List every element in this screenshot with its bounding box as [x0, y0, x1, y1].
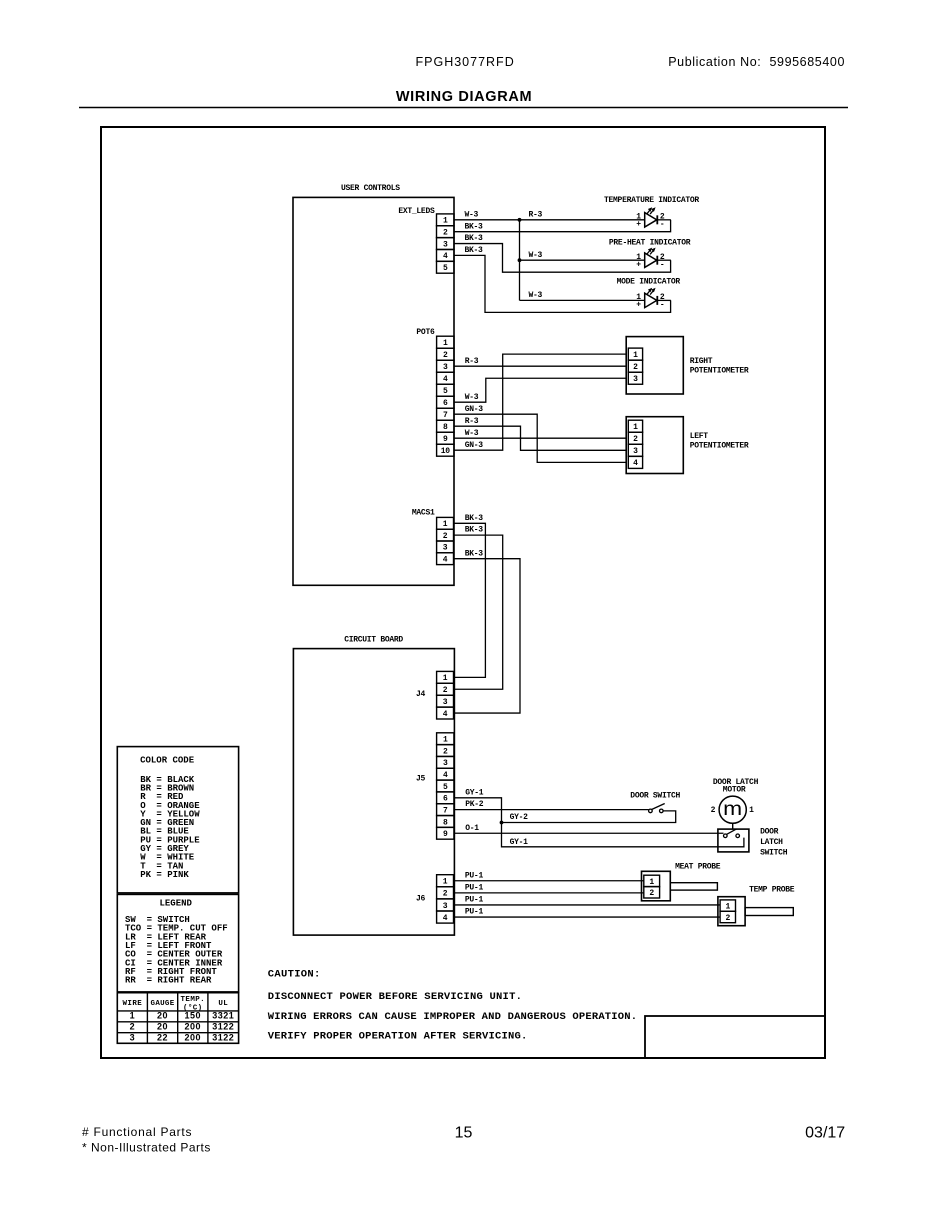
svg-text:-: - — [660, 301, 665, 310]
svg-text:MEAT PROBE: MEAT PROBE — [675, 863, 721, 872]
svg-text:1: 1 — [633, 423, 638, 432]
svg-text:PRE-HEAT INDICATOR: PRE-HEAT INDICATOR — [609, 239, 691, 248]
svg-text:22: 22 — [157, 1032, 168, 1042]
svg-text:2: 2 — [649, 889, 654, 898]
svg-text:MOTOR: MOTOR — [723, 786, 746, 795]
svg-text:BK-3: BK-3 — [465, 222, 484, 231]
svg-text:9: 9 — [443, 830, 448, 839]
svg-text:3: 3 — [443, 759, 448, 768]
svg-text:1: 1 — [749, 806, 754, 815]
svg-text:m: m — [723, 799, 742, 820]
svg-text:4: 4 — [443, 556, 448, 565]
svg-text:1: 1 — [130, 1011, 136, 1021]
svg-text:2: 2 — [633, 435, 638, 444]
svg-text:GY-1: GY-1 — [510, 838, 529, 847]
svg-text:DOOR: DOOR — [760, 828, 779, 837]
svg-text:2: 2 — [130, 1022, 136, 1032]
svg-text:2: 2 — [443, 351, 448, 360]
svg-text:USER CONTROLS: USER CONTROLS — [341, 184, 400, 193]
svg-text:VERIFY PROPER OPERATION AFTER: VERIFY PROPER OPERATION AFTER SERVICING. — [268, 1031, 528, 1043]
svg-text:20: 20 — [157, 1022, 168, 1032]
svg-text:LEFT: LEFT — [690, 432, 709, 441]
svg-text:W-3: W-3 — [465, 393, 479, 402]
svg-text:PU-1: PU-1 — [465, 871, 484, 880]
svg-text:1: 1 — [443, 736, 448, 745]
svg-text:2: 2 — [711, 806, 716, 815]
svg-text:RIGHT: RIGHT — [690, 357, 713, 366]
svg-text:3: 3 — [443, 902, 448, 911]
svg-text:6: 6 — [443, 795, 448, 804]
svg-text:PU-1: PU-1 — [465, 908, 484, 917]
svg-text:PK-2: PK-2 — [465, 800, 484, 809]
svg-text:BK-3: BK-3 — [465, 246, 484, 255]
svg-text:200: 200 — [185, 1022, 202, 1032]
svg-text:POTENTIOMETER: POTENTIOMETER — [690, 367, 749, 376]
svg-text:EXT_LEDS: EXT_LEDS — [398, 207, 435, 216]
svg-text:2: 2 — [443, 747, 448, 756]
svg-text:3: 3 — [443, 544, 448, 553]
svg-text:BK-3: BK-3 — [465, 526, 484, 535]
svg-text:# Functional Parts: # Functional Parts — [82, 1125, 192, 1139]
svg-text:BK-3: BK-3 — [465, 234, 484, 243]
svg-text:PU-1: PU-1 — [465, 883, 484, 892]
svg-text:CAUTION:: CAUTION: — [268, 968, 321, 980]
svg-text:200: 200 — [185, 1032, 202, 1042]
svg-text:1: 1 — [443, 878, 448, 887]
svg-text:DOOR SWITCH: DOOR SWITCH — [630, 791, 680, 800]
svg-text:PK = PINK: PK = PINK — [140, 870, 189, 880]
svg-text:3: 3 — [130, 1032, 136, 1042]
svg-text:R-3: R-3 — [465, 417, 479, 426]
svg-text:1: 1 — [649, 878, 654, 887]
svg-text:UL: UL — [218, 1000, 228, 1008]
svg-text:+: + — [636, 220, 641, 229]
svg-text:* Non-Illustrated Parts: * Non-Illustrated Parts — [82, 1141, 211, 1155]
svg-text:20: 20 — [157, 1011, 168, 1021]
svg-text:LATCH: LATCH — [760, 838, 783, 847]
svg-text:TEMP PROBE: TEMP PROBE — [749, 886, 795, 895]
svg-text:4: 4 — [443, 375, 448, 384]
svg-text:10: 10 — [441, 447, 451, 456]
svg-text:+: + — [636, 260, 641, 269]
svg-text:2: 2 — [633, 363, 638, 372]
svg-text:J4: J4 — [416, 690, 426, 699]
svg-text:4: 4 — [443, 914, 448, 923]
svg-text:7: 7 — [443, 806, 448, 815]
svg-text:1: 1 — [443, 674, 448, 683]
svg-text:2: 2 — [443, 686, 448, 695]
svg-text:MACS1: MACS1 — [412, 509, 435, 518]
svg-text:O-1: O-1 — [465, 824, 479, 833]
svg-text:PU-1: PU-1 — [465, 896, 484, 905]
svg-text:5: 5 — [443, 783, 448, 792]
svg-text:TEMPERATURE INDICATOR: TEMPERATURE INDICATOR — [604, 196, 699, 205]
svg-text:J5: J5 — [416, 775, 426, 784]
svg-text:+: + — [636, 301, 641, 310]
svg-text:1: 1 — [633, 351, 638, 360]
svg-text:GN-3: GN-3 — [465, 405, 484, 414]
svg-text:6: 6 — [443, 399, 448, 408]
svg-text:W-3: W-3 — [529, 251, 543, 260]
svg-text:3: 3 — [633, 375, 638, 384]
svg-text:2: 2 — [443, 890, 448, 899]
svg-text:3: 3 — [443, 363, 448, 372]
svg-text:-: - — [660, 260, 665, 269]
svg-text:BK-3: BK-3 — [465, 549, 484, 558]
svg-text:TEMP.: TEMP. — [181, 996, 206, 1004]
svg-text:4: 4 — [633, 459, 638, 468]
svg-text:W-3: W-3 — [465, 210, 479, 219]
svg-text:RR = RIGHT REAR: RR = RIGHT REAR — [125, 976, 212, 986]
svg-text:1: 1 — [726, 903, 731, 912]
svg-text:2: 2 — [443, 228, 448, 237]
svg-text:GAUGE: GAUGE — [151, 1000, 175, 1008]
svg-text:LEGEND: LEGEND — [160, 899, 193, 909]
svg-text:1: 1 — [443, 339, 448, 348]
svg-text:Publication No: 5995685400: Publication No: 5995685400 — [668, 55, 845, 69]
svg-text:4: 4 — [443, 252, 448, 261]
svg-text:2: 2 — [726, 914, 731, 923]
svg-text:4: 4 — [443, 771, 448, 780]
svg-text:SWITCH: SWITCH — [760, 849, 788, 858]
svg-text:DISCONNECT POWER BEFORE SERVIC: DISCONNECT POWER BEFORE SERVICING UNIT. — [268, 991, 522, 1003]
svg-text:3122: 3122 — [212, 1022, 234, 1032]
svg-text:WIRING ERRORS CAN CAUSE IMPROP: WIRING ERRORS CAN CAUSE IMPROPER AND DAN… — [268, 1011, 637, 1023]
svg-text:1: 1 — [443, 520, 448, 529]
svg-text:3: 3 — [443, 240, 448, 249]
svg-text:3: 3 — [443, 698, 448, 707]
svg-text:-: - — [660, 220, 665, 229]
svg-text:03/17: 03/17 — [805, 1125, 845, 1142]
svg-text:R-3: R-3 — [465, 357, 479, 366]
svg-text:1: 1 — [443, 217, 448, 226]
svg-text:POT6: POT6 — [416, 328, 435, 337]
svg-text:R-3: R-3 — [529, 210, 543, 219]
svg-text:150: 150 — [185, 1011, 202, 1021]
svg-text:9: 9 — [443, 435, 448, 444]
svg-text:BK-3: BK-3 — [465, 514, 484, 523]
svg-text:CIRCUIT BOARD: CIRCUIT BOARD — [344, 635, 403, 644]
svg-text:W-3: W-3 — [465, 429, 479, 438]
svg-text:15: 15 — [455, 1125, 473, 1142]
svg-text:MODE INDICATOR: MODE INDICATOR — [617, 277, 681, 286]
svg-text:7: 7 — [443, 411, 448, 420]
svg-text:WIRE: WIRE — [123, 1000, 143, 1008]
svg-text:8: 8 — [443, 423, 448, 432]
svg-text:GN-3: GN-3 — [465, 441, 484, 450]
svg-text:8: 8 — [443, 818, 448, 827]
svg-text:J6: J6 — [416, 895, 426, 904]
svg-text:WIRING DIAGRAM: WIRING DIAGRAM — [396, 89, 532, 105]
svg-text:2: 2 — [443, 532, 448, 541]
svg-text:3321: 3321 — [212, 1011, 234, 1021]
svg-text:GY-2: GY-2 — [510, 813, 529, 822]
svg-text:3: 3 — [633, 447, 638, 456]
svg-text:COLOR CODE: COLOR CODE — [140, 756, 195, 766]
svg-text:4: 4 — [443, 710, 448, 719]
svg-text:5: 5 — [443, 264, 448, 273]
svg-text:W-3: W-3 — [529, 291, 543, 300]
svg-text:FPGH3077RFD: FPGH3077RFD — [416, 55, 515, 69]
svg-text:3122: 3122 — [212, 1032, 234, 1042]
svg-text:POTENTIOMETER: POTENTIOMETER — [690, 442, 749, 451]
svg-text:5: 5 — [443, 387, 448, 396]
svg-text:GY-1: GY-1 — [465, 788, 484, 797]
